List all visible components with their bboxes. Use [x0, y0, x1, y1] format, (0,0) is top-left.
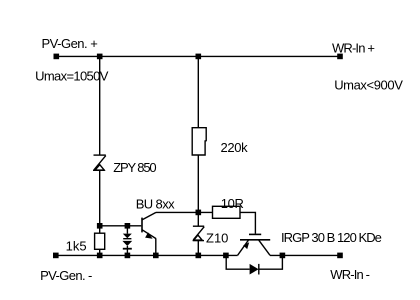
- node junction base-left: [97, 223, 103, 229]
- svg-text:WR-In +: WR-In +: [332, 41, 374, 56]
- svg-text:Umax<900V: Umax<900V: [334, 78, 403, 93]
- svg-text:PV-Gen. +: PV-Gen. +: [42, 36, 98, 51]
- svg-text:PV-Gen. -: PV-Gen. -: [40, 268, 92, 283]
- node junction top-mid: [196, 54, 202, 60]
- wire emitter vertical: [155, 239, 157, 256]
- svg-text:220k: 220k: [221, 140, 249, 155]
- diode D1: [123, 234, 132, 239]
- zener ZPY 850: [93, 155, 106, 170]
- wire collector rail: [156, 211, 213, 213]
- zener Z10: [193, 226, 205, 240]
- wire gate lead: [240, 212, 255, 233]
- wire bottom rail left: [56, 254, 238, 256]
- terminal PV-Gen. +: [54, 54, 60, 60]
- wire left vertical lower: [99, 170, 101, 226]
- resistor 220k: [192, 128, 206, 155]
- wire bypass diode loop right: [259, 255, 283, 269]
- node junction bottom diode: [125, 253, 131, 259]
- node junction top-left: [97, 54, 103, 60]
- wire Z10 to bottom rail: [197, 241, 199, 256]
- diode D2: [122, 241, 132, 249]
- svg-text:Umax=1050V: Umax=1050V: [35, 69, 109, 84]
- wire 1k5 bottom lead: [99, 249, 101, 255]
- svg-text:1k5: 1k5: [66, 238, 87, 253]
- svg-text:WR-In -: WR-In -: [330, 267, 369, 282]
- wire mid vertical to Z10: [197, 212, 199, 226]
- node junction bottom IGBT-right: [280, 253, 286, 259]
- node junction diode tap: [125, 223, 131, 229]
- wire bottom rail right: [270, 254, 340, 256]
- svg-text:ZPY 850: ZPY 850: [113, 160, 156, 175]
- wire top rail: [56, 55, 340, 57]
- node junction bottom Z10: [196, 253, 202, 259]
- wire diode pair top lead: [126, 226, 128, 234]
- transistor U2 IGBT: [238, 234, 271, 255]
- node junction bottom 1k5: [97, 253, 103, 259]
- svg-text:10R: 10R: [221, 196, 244, 211]
- node junction collector rail: [196, 210, 202, 216]
- terminal PV-Gen. -: [53, 253, 59, 259]
- svg-text:BU 8xx: BU 8xx: [136, 197, 175, 212]
- wire bypass diode loop left: [226, 255, 249, 269]
- wire 1k5 top lead: [99, 226, 101, 233]
- terminal WR-In -: [337, 253, 343, 259]
- wire mid vertical middle: [197, 155, 199, 212]
- terminal WR-In +: [337, 54, 343, 60]
- node junction bottom emitter: [153, 253, 159, 259]
- transistor Q1 BU 8xx: [142, 212, 156, 238]
- svg-text:IRGP 30 B 120 KDe: IRGP 30 B 120 KDe: [281, 230, 382, 245]
- diode D3 bypass: [250, 264, 259, 275]
- wire base rail: [100, 225, 142, 227]
- resistor 1k5: [95, 233, 105, 249]
- wire left vertical upper: [99, 56, 101, 155]
- wire mid vertical upper: [197, 56, 199, 127]
- resistor 10R: [213, 206, 241, 218]
- wire diode pair bottom lead: [126, 246, 128, 255]
- node junction bottom IGBT-left: [223, 253, 229, 259]
- svg-text:Z10: Z10: [206, 231, 228, 246]
